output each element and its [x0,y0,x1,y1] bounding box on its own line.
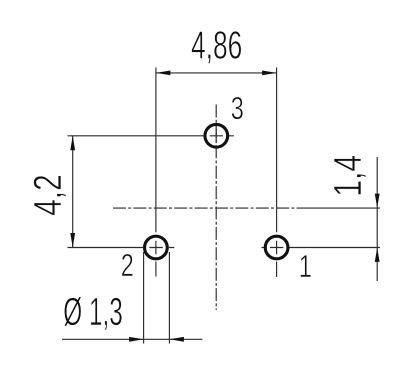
arrowhead top dimension left [156,71,171,76]
wire extension line pin2 vertical [155,68,157,277]
wire dimension line 4,2 left [72,136,74,248]
wire pin3 horizontal centerline to left dimension [68,135,234,137]
wire dimension line 4,86 top [156,72,277,74]
svg-text:4,2: 4,2 [26,174,70,216]
svg-text:2: 2 [121,247,134,283]
node vertical centerline axis [215,105,217,311]
svg-text:1,4: 1,4 [326,155,370,197]
node horizontal centerline axis [113,207,305,209]
arrowhead right dimension pointing up [375,248,380,262]
pin 2 circle [145,236,168,259]
pin 3 circle [205,124,228,147]
wire extension line pin1 vertical [276,68,278,278]
wire pin1 horizontal centerline to right dimension [262,247,381,249]
svg-text:1: 1 [299,248,312,284]
arrowhead left dimension down [70,233,75,248]
wire tangent extension line left of pin2 [143,252,145,344]
arrowhead right dimension pointing down [375,194,380,209]
pin 1 circle [265,236,288,259]
arrowhead left dimension up [70,136,75,151]
arrowhead bottom dimension pointing left [169,337,184,342]
arrowhead bottom dimension pointing right [129,337,144,342]
svg-text:3: 3 [231,90,244,126]
arrowhead top dimension right [262,71,277,76]
wire dimension line 1,4 right [376,157,378,281]
svg-text:Ø 1,3: Ø 1,3 [63,290,123,334]
svg-text:4,86: 4,86 [191,24,242,68]
wire horizontal axis extension to right dimension [305,207,380,209]
wire dimension line diameter 1,3 bottom [62,338,202,340]
wire pin3 vertical center dash [215,129,217,142]
wire tangent extension line right of pin2 [168,252,170,344]
wire pin2 horizontal centerline to left dimension [68,247,175,249]
